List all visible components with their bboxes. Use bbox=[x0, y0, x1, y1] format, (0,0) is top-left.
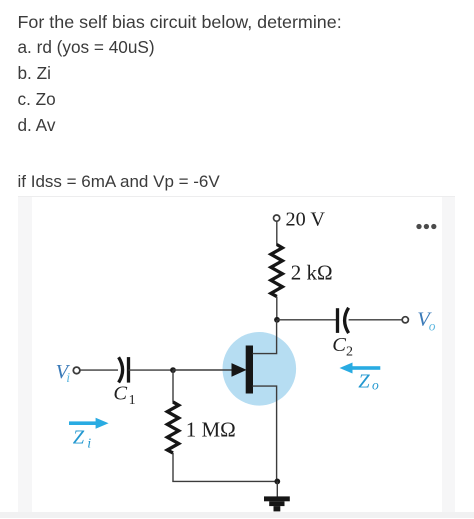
svg-text:1 MΩ: 1 MΩ bbox=[186, 417, 236, 441]
svg-text:Z: Z bbox=[358, 370, 370, 392]
svg-text:20 V: 20 V bbox=[286, 208, 326, 230]
svg-text:1: 1 bbox=[129, 393, 136, 408]
figure panel edge strips bbox=[18, 196, 32, 514]
drain lead bbox=[253, 320, 277, 354]
node S junction dot bbox=[274, 479, 280, 485]
svg-text:o: o bbox=[372, 377, 379, 392]
svg-text:C: C bbox=[332, 334, 346, 356]
Zo arrow bbox=[340, 363, 381, 374]
wire supply to R1 bbox=[276, 221, 278, 245]
source lead bbox=[253, 386, 277, 481]
node D junction dot bbox=[274, 317, 280, 323]
transistor body highlight bbox=[222, 332, 296, 406]
wire node G to R2 bbox=[172, 370, 174, 403]
question text bbox=[18, 14, 342, 31]
gate arrowhead bbox=[232, 363, 247, 377]
capacitor C1 bbox=[119, 357, 129, 383]
output terminal bbox=[402, 317, 408, 323]
wire R2 to bottom rail bbox=[172, 453, 174, 481]
wire C2 to output terminal bbox=[349, 319, 403, 321]
svg-text:2 kΩ: 2 kΩ bbox=[291, 261, 333, 285]
svg-text:i: i bbox=[66, 371, 70, 386]
svg-text:o: o bbox=[429, 318, 436, 333]
wire node S to ground bbox=[276, 481, 278, 497]
node G junction dot bbox=[170, 367, 176, 373]
Zi arrow bbox=[69, 418, 109, 429]
resistor R1 2k bbox=[271, 245, 283, 297]
svg-text:2: 2 bbox=[346, 345, 353, 360]
resistor R2 1M bbox=[167, 402, 178, 453]
wire C1 to node G bbox=[129, 369, 174, 371]
ground bbox=[264, 496, 290, 511]
supply terminal bbox=[274, 215, 280, 221]
bottom rail wire bbox=[172, 480, 277, 482]
input terminal Vi bbox=[73, 367, 80, 374]
wire node D to C2 bbox=[277, 319, 336, 321]
wire Vi to C1 bbox=[80, 369, 118, 371]
wire node G to gate bbox=[173, 369, 241, 371]
svg-text:Z: Z bbox=[73, 427, 85, 449]
svg-text:C: C bbox=[113, 383, 127, 405]
capacitor C2 bbox=[338, 308, 349, 333]
wire R1 to node D bbox=[276, 297, 278, 321]
svg-text:i: i bbox=[87, 437, 91, 452]
menu dots bbox=[416, 224, 436, 229]
JFET Q1 channel bar bbox=[246, 346, 253, 394]
